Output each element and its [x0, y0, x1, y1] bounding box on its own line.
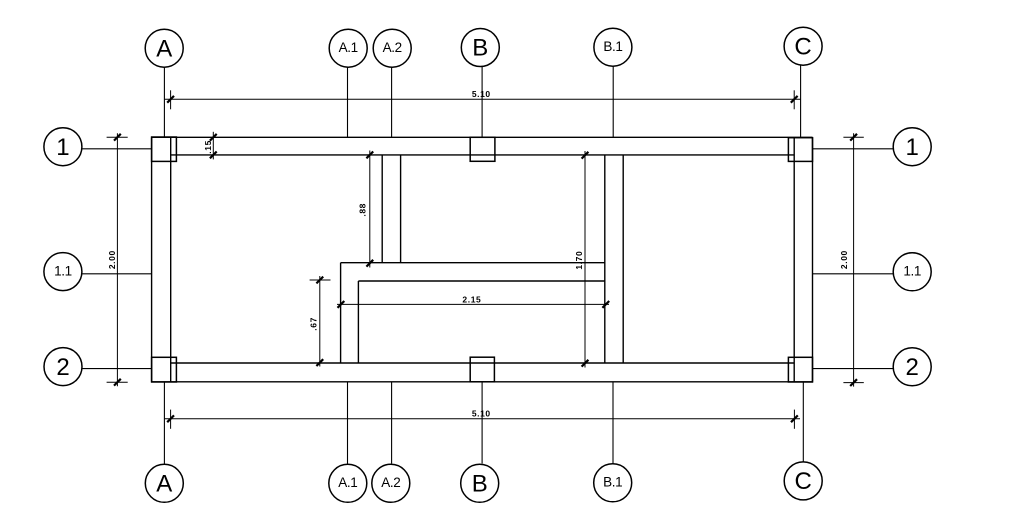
- grid bubble A.2 top: [373, 29, 411, 67]
- dimension 2.15 right tick: [602, 301, 609, 308]
- wall left inner line: [170, 137, 172, 381]
- column A/2: [152, 357, 177, 382]
- dimension 5.10 top line: [164, 98, 800, 100]
- wall bottom outer line: [152, 381, 813, 383]
- svg-text:1.1: 1.1: [54, 263, 72, 278]
- grid line 1.1 left stub: [82, 273, 152, 275]
- svg-text:A.2: A.2: [383, 40, 402, 55]
- dimension 2.15 left tick: [338, 301, 345, 308]
- grid line A bottom stub: [163, 382, 165, 464]
- grid line 1 left stub: [82, 148, 152, 150]
- interior wall A.2 east line: [400, 155, 402, 263]
- interior stub wall west line: [340, 263, 342, 363]
- column A/1: [152, 137, 177, 161]
- dimension 5.10 bottom left tick: [167, 415, 174, 422]
- svg-text:1: 1: [906, 134, 919, 161]
- svg-text:1.70: 1.70: [574, 251, 584, 270]
- grid line 1 right stub: [813, 148, 894, 150]
- grid bubble 1.1 left: [44, 253, 82, 291]
- grid line C bottom stub: [802, 382, 804, 462]
- dimension 5.10 top left tick: [167, 96, 174, 103]
- svg-text:5.10: 5.10: [472, 89, 491, 99]
- svg-text:2.15: 2.15: [462, 295, 481, 305]
- dimension 1.70 bottom tick: [582, 360, 589, 367]
- dimension .88 line: [369, 151, 371, 268]
- dimension 2.00 right bottom tick: [850, 379, 857, 386]
- svg-text:B: B: [472, 35, 488, 62]
- grid line A.1 top stub: [347, 68, 349, 138]
- dimension 2.00 left top tick: [114, 134, 121, 141]
- dimension 2.00 left bottom extension: [107, 381, 128, 383]
- dimension 2.15 line: [337, 303, 609, 305]
- column B/2: [470, 357, 494, 382]
- wall top inner line: [171, 154, 795, 156]
- dimension 5.10 bottom right tick: [791, 415, 798, 422]
- grid line A.1 bottom stub: [347, 382, 349, 464]
- dimension 2.00 right top tick: [850, 134, 857, 141]
- dimension 5.10 bottom left extension: [170, 410, 172, 429]
- dimension .15 top tick: [210, 134, 217, 141]
- grid bubble A.1 bottom: [329, 464, 367, 502]
- grid line B bottom stub: [481, 382, 483, 464]
- dimension 2.00 right line: [853, 133, 855, 386]
- svg-text:C: C: [794, 33, 811, 60]
- dimension 5.10 top right extension: [793, 90, 795, 109]
- grid bubble B.1 bottom: [594, 464, 632, 502]
- column C/2: [788, 357, 812, 382]
- svg-text:2: 2: [906, 354, 919, 381]
- grid bubble 2 left: [44, 348, 82, 386]
- grid bubble 1 right: [893, 128, 931, 166]
- wall right outer line: [812, 137, 814, 381]
- grid line 2 right stub: [813, 368, 894, 370]
- dimension 2.00 left bottom tick: [114, 379, 121, 386]
- grid line B.1 top stub: [612, 67, 614, 138]
- dimension .88 bottom tick: [366, 260, 373, 267]
- grid bubble C top: [784, 27, 822, 65]
- interior wall B.1 west line: [604, 155, 606, 363]
- svg-text:A.1: A.1: [338, 475, 357, 490]
- grid bubble B.1 top: [594, 28, 632, 66]
- svg-text:.15: .15: [203, 140, 213, 154]
- interior stub wall east line: [357, 281, 359, 363]
- grid bubble A top: [145, 29, 183, 67]
- grid bubble 1.1 right: [893, 253, 931, 291]
- svg-text:5.10: 5.10: [472, 408, 491, 418]
- dimension .15 line: [212, 132, 214, 160]
- grid line B.1 bottom stub: [612, 382, 614, 464]
- dimension 5.10 bottom right extension: [793, 410, 795, 429]
- grid bubble A bottom: [145, 464, 183, 502]
- svg-text:C: C: [795, 468, 812, 495]
- grid bubble 2 right: [893, 348, 931, 386]
- dimension .67 top tick: [316, 277, 323, 284]
- dimension .67 line: [319, 276, 321, 367]
- wall left outer line: [151, 137, 153, 381]
- dimension 2.00 left line: [116, 133, 118, 386]
- wall bottom inner line: [171, 362, 795, 364]
- grid line A.2 bottom stub: [391, 382, 393, 464]
- svg-text:1: 1: [56, 134, 69, 161]
- grid line B top stub: [481, 67, 483, 137]
- svg-text:B: B: [472, 471, 488, 498]
- grid line 1.1 right stub: [813, 273, 894, 275]
- grid line A top stub: [163, 68, 165, 138]
- grid line A.2 top stub: [391, 68, 393, 138]
- column B/1: [470, 137, 495, 161]
- svg-text:1.1: 1.1: [903, 264, 921, 279]
- dimension 5.10 bottom line: [164, 418, 800, 420]
- column C/1: [788, 138, 812, 162]
- interior mid wall top line: [341, 262, 605, 264]
- dimension 1.70 line: [584, 151, 586, 368]
- dimension 2.00 left top extension: [107, 136, 128, 138]
- interior mid wall bottom line: [358, 280, 604, 282]
- wall top outer line: [152, 136, 813, 138]
- grid bubble A.2 bottom: [372, 464, 410, 502]
- dimension .67 top extension: [310, 279, 331, 281]
- dimension 2.00 right bottom extension: [843, 382, 863, 384]
- svg-text:B.1: B.1: [603, 475, 622, 490]
- dimension 5.10 top left extension: [170, 90, 172, 109]
- svg-text:2: 2: [56, 354, 69, 381]
- dimension 5.10 top right tick: [791, 96, 798, 103]
- wall right inner line: [793, 137, 795, 381]
- dimension .88 top tick: [366, 152, 373, 159]
- svg-text:A.1: A.1: [339, 40, 358, 55]
- svg-text:.88: .88: [357, 203, 367, 217]
- svg-text:2.00: 2.00: [107, 250, 117, 269]
- svg-text:B.1: B.1: [603, 39, 622, 54]
- svg-text:A: A: [156, 471, 172, 498]
- dimension 2.00 right top extension: [843, 136, 863, 138]
- svg-text:A: A: [156, 35, 172, 62]
- grid bubble B top: [461, 29, 499, 67]
- grid bubble B bottom: [461, 464, 499, 502]
- grid bubble 1 left: [44, 128, 82, 166]
- grid line 2 left stub: [82, 368, 152, 370]
- svg-text:2.00: 2.00: [839, 250, 849, 269]
- interior wall B.1 east line: [622, 155, 624, 363]
- dimension .15 bottom tick: [210, 152, 217, 159]
- grid line C top stub: [800, 66, 802, 138]
- interior wall A.2 west line: [381, 155, 383, 263]
- grid bubble C bottom: [784, 462, 822, 500]
- dimension 1.70 top tick: [582, 152, 589, 159]
- dimension .67 bottom tick: [316, 359, 323, 366]
- grid bubble A.1 top: [329, 29, 367, 67]
- svg-text:.67: .67: [308, 317, 318, 331]
- svg-text:A.2: A.2: [381, 475, 400, 490]
